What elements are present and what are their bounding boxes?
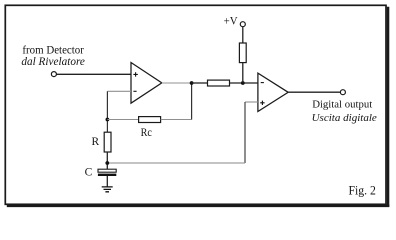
wire left vertical branch <box>106 91 108 132</box>
resistor R <box>104 132 111 152</box>
comparator U2 <box>258 73 288 111</box>
U2 minus pin mark <box>261 82 264 84</box>
wire +V terminal to resistor <box>242 27 244 43</box>
node feedback junction <box>106 118 110 122</box>
svg-text:Uscita digitale: Uscita digitale <box>312 112 377 124</box>
wire feedback vertical to output node <box>191 83 193 120</box>
ground <box>102 187 113 192</box>
svg-text:R: R <box>92 136 100 148</box>
wire series resistor to comparator minus <box>230 82 258 84</box>
wire lower horizontal to RC node <box>107 162 245 164</box>
svg-text:dal Rivelatore: dal Rivelatore <box>21 56 85 68</box>
svg-text:Rc: Rc <box>141 127 152 139</box>
op-amp U1 <box>131 63 162 104</box>
svg-text:from Detector: from Detector <box>22 44 84 56</box>
capacitor C <box>98 169 116 172</box>
+V terminal node <box>240 22 245 27</box>
svg-text:C: C <box>85 167 93 179</box>
node R C junction <box>105 161 109 165</box>
resistor pull-up <box>239 43 246 63</box>
input terminal node <box>51 72 56 77</box>
wire U2 plus vertical <box>244 102 246 163</box>
wire R to capacitor <box>106 152 108 169</box>
resistor Rc <box>139 117 161 123</box>
wire U2 output <box>288 91 340 93</box>
output terminal node <box>340 90 345 95</box>
U1 plus pin mark <box>133 72 137 76</box>
wire U1 output <box>162 82 192 84</box>
wire U2 plus input horizontal <box>245 101 258 103</box>
wire pull-up resistor to node <box>242 63 244 83</box>
svg-text:Fig. 2: Fig. 2 <box>349 184 376 198</box>
wire feedback right segment <box>161 119 192 121</box>
series resistor <box>208 80 230 86</box>
wire capacitor to ground <box>106 176 108 187</box>
U1 minus pin mark <box>133 90 136 92</box>
U2 plus pin mark <box>260 101 264 105</box>
node U1 output junction <box>190 81 194 85</box>
wire output node to series resistor <box>192 82 208 84</box>
svg-text:Digital output: Digital output <box>312 99 372 111</box>
node +V junction <box>241 81 245 85</box>
wire U1 minus input horizontal <box>107 90 131 92</box>
wire feedback left segment <box>107 119 138 121</box>
svg-text:+V: +V <box>224 15 239 27</box>
wire input to op-amp + <box>56 73 131 75</box>
